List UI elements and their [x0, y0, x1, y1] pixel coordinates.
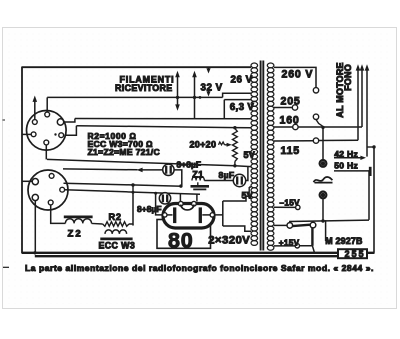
svg-text:8µF: 8µF	[219, 170, 235, 180]
svg-text:6,3 V: 6,3 V	[230, 102, 255, 113]
svg-text:2×320V: 2×320V	[208, 234, 250, 246]
svg-text:FONO: FONO	[343, 64, 353, 91]
svg-text:8+8µF: 8+8µF	[137, 204, 162, 214]
svg-text:20+20: 20+20	[190, 140, 217, 150]
svg-text:5V: 5V	[244, 150, 256, 160]
svg-text:RICEVITORE: RICEVITORE	[115, 83, 173, 93]
svg-text:32 V: 32 V	[201, 83, 223, 94]
svg-text:115: 115	[281, 145, 301, 157]
svg-text:La parte alimentazione del rad: La parte alimentazione del radiofonograf…	[25, 263, 374, 273]
svg-text:–15V: –15V	[280, 198, 301, 207]
svg-text:260 V: 260 V	[282, 69, 314, 81]
svg-text:5V: 5V	[242, 190, 254, 200]
svg-text:255: 255	[345, 249, 366, 259]
svg-text:+15V: +15V	[279, 238, 300, 247]
svg-text:Z2: Z2	[68, 229, 83, 240]
svg-text:50 Hᴢ: 50 Hᴢ	[334, 161, 358, 171]
svg-text:8+8µF: 8+8µF	[177, 160, 202, 170]
svg-text:M 2927B: M 2927B	[325, 236, 362, 246]
svg-text:Z1=Z2=ME 721/C: Z1=Z2=ME 721/C	[88, 147, 161, 157]
svg-text:160: 160	[280, 115, 300, 127]
svg-text:42 Hᴢ: 42 Hᴢ	[334, 149, 358, 159]
svg-text:80: 80	[168, 228, 194, 252]
svg-text:Z1: Z1	[192, 170, 203, 180]
svg-text:26 V: 26 V	[231, 75, 253, 86]
svg-text:ECC W3: ECC W3	[99, 241, 136, 251]
svg-text:R2: R2	[109, 212, 122, 222]
svg-text:205: 205	[281, 96, 301, 108]
